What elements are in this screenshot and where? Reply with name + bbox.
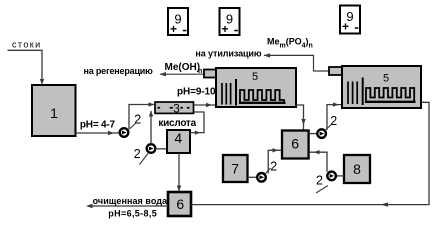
svg-text:2: 2 <box>134 112 141 126</box>
svg-text:5: 5 <box>252 71 258 83</box>
svg-text:очищенная вода: очищенная вода <box>93 196 168 206</box>
svg-text:pH=6,5-8,5: pH=6,5-8,5 <box>108 209 157 219</box>
svg-text:7: 7 <box>231 161 239 177</box>
svg-text:1: 1 <box>50 105 58 121</box>
svg-text:2: 2 <box>270 160 277 174</box>
svg-text:5: 5 <box>383 73 389 85</box>
svg-text:2: 2 <box>134 147 141 161</box>
svg-text:8: 8 <box>353 161 361 177</box>
svg-text:+: + <box>342 20 349 34</box>
svg-text:4: 4 <box>174 130 182 146</box>
svg-text:2: 2 <box>316 174 323 188</box>
svg-text:pH= 4-7: pH= 4-7 <box>80 120 116 131</box>
svg-text:на регенерацию: на регенерацию <box>84 66 154 76</box>
svg-text:кислота: кислота <box>158 118 196 129</box>
svg-text:стоки: стоки <box>12 40 42 50</box>
svg-text:6: 6 <box>176 196 184 212</box>
svg-text:Ме(ОН): Ме(ОН) <box>165 62 201 73</box>
svg-text:n: n <box>198 68 202 75</box>
svg-text:на утилизацию: на утилизацию <box>195 48 261 58</box>
svg-text:pH=9-10: pH=9-10 <box>177 87 216 98</box>
svg-text:3: 3 <box>173 102 180 116</box>
svg-text:2: 2 <box>330 114 337 128</box>
svg-text:+: + <box>170 22 177 36</box>
svg-text:6: 6 <box>291 135 299 151</box>
svg-text:+: + <box>222 22 229 36</box>
